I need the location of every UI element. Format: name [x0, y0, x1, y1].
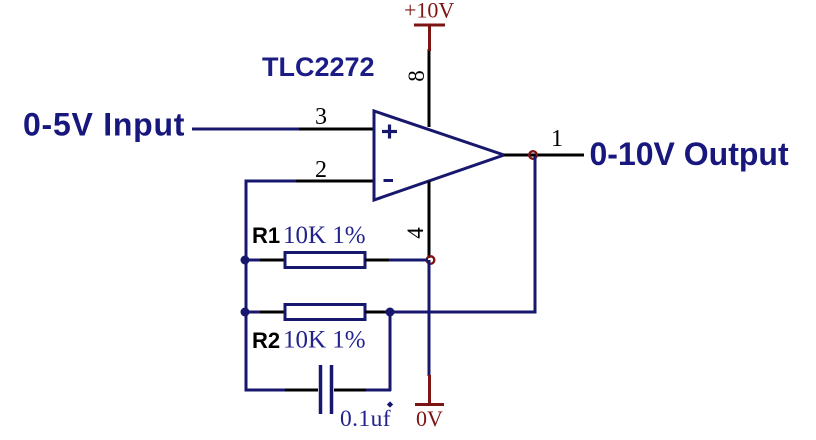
svg-text:+10V: +10V: [404, 0, 454, 23]
capacitor C1 plates: [321, 365, 332, 414]
svg-text:TLC2272: TLC2272: [262, 52, 375, 82]
junction dot R2 right: [386, 308, 395, 317]
svg-text:10K 1%: 10K 1%: [283, 327, 366, 354]
svg-text:2: 2: [315, 157, 327, 183]
junction ring at output node: [529, 151, 537, 159]
op-amp plus input marker: [382, 125, 397, 139]
resistor R2 body: [285, 305, 365, 320]
svg-text:4: 4: [403, 227, 428, 239]
stray diamond dot near 0.1uf: [387, 401, 393, 407]
resistor R2 left pin: [260, 311, 285, 314]
svg-text:0.1uf: 0.1uf: [340, 406, 391, 432]
svg-text:R2: R2: [252, 328, 280, 353]
wire capacitor bottom right: [366, 389, 391, 392]
ground symbol 0V: [415, 375, 444, 405]
junction dot R2 left: [241, 308, 250, 317]
svg-text:3: 3: [315, 104, 327, 130]
wire pin4 node down to ground: [428, 260, 431, 376]
pin 3 of op-amp: [299, 128, 375, 131]
wire R1 right to pin4 node: [389, 259, 428, 262]
wire R2 left stub: [245, 311, 262, 314]
svg-text:0-10V Output: 0-10V Output: [590, 136, 789, 172]
pin 1 of op-amp (output): [504, 154, 584, 157]
pin 8 of op-amp (V+): [428, 49, 431, 127]
svg-text:0-5V Input: 0-5V Input: [23, 107, 185, 143]
op-amp minus input marker: [384, 179, 394, 182]
resistor R1 body: [285, 253, 365, 268]
resistor R1 right pin: [365, 259, 390, 262]
resistor R1 left pin: [260, 259, 285, 262]
svg-text:1: 1: [551, 126, 563, 152]
power symbol +10V: [414, 25, 445, 51]
capacitor C1 right pin: [334, 389, 368, 392]
pin 4 of op-amp (V-): [428, 181, 431, 258]
junction ring at pin4 / R1 node: [427, 256, 435, 264]
wire node A vertical (inverting input net): [246, 181, 296, 390]
wire capacitor bottom left: [245, 389, 287, 392]
svg-text:R1: R1: [252, 223, 280, 248]
junction dot R1 left: [241, 256, 250, 265]
wire R2 right node down to capacitor: [389, 312, 392, 391]
resistor R2 right pin: [365, 311, 390, 314]
svg-text:10K 1%: 10K 1%: [283, 222, 366, 249]
wire feedback from output node down: [390, 156, 535, 312]
pin 2 of op-amp: [296, 180, 375, 183]
capacitor C1 left pin: [285, 389, 318, 392]
wire input to pin 3: [192, 128, 300, 131]
svg-text:8: 8: [404, 70, 429, 82]
op-amp U1 TLC2272 triangle: [374, 111, 504, 200]
wire R1 left stub: [245, 259, 262, 262]
svg-text:0V: 0V: [416, 406, 443, 431]
